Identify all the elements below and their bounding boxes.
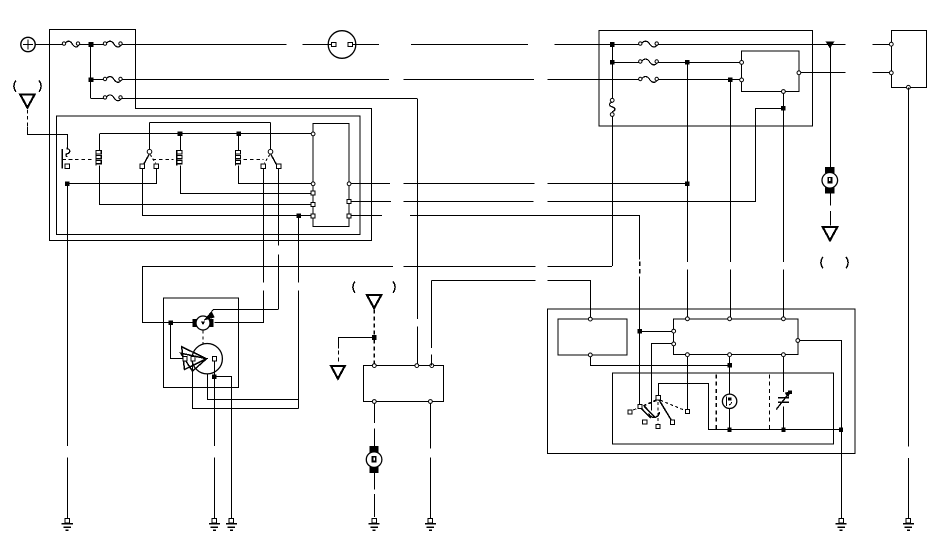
wire unit to lamp xyxy=(729,357,731,395)
wire to ground arrow T3 xyxy=(339,338,375,349)
wire lamp to rail xyxy=(729,409,731,430)
node junction row2 xyxy=(89,78,94,83)
wire 53e dashed section xyxy=(639,261,641,276)
wire bus A in fusebox xyxy=(612,44,639,46)
wire K4 to switch xyxy=(783,108,785,318)
node junction switch in xyxy=(638,329,643,334)
wire S1/S2 ground link xyxy=(67,183,156,185)
node junction switch feed xyxy=(728,78,733,83)
wire washer relay to pump xyxy=(374,404,376,447)
switch S2 blade alt dashed xyxy=(150,155,155,164)
wire unit to contact 6 xyxy=(687,357,689,410)
wire bus B xyxy=(612,62,639,64)
connector block X2 xyxy=(313,124,349,227)
ground G4 xyxy=(372,519,376,523)
node coil3 junction xyxy=(236,132,241,137)
rotary switch contact terminals xyxy=(628,410,632,414)
node park junction xyxy=(212,374,217,379)
wire wiper feed drop xyxy=(298,216,300,409)
wire bus C to relay box xyxy=(658,79,740,81)
wire switch feed drop xyxy=(730,80,732,319)
contact S1 fixed bar xyxy=(61,149,63,168)
node junction motor M3 feed xyxy=(827,42,834,47)
wire motor right brush xyxy=(214,322,263,324)
contact S1 terminal xyxy=(65,164,69,168)
fuse F1 xyxy=(65,41,80,47)
ground G2 xyxy=(212,519,216,523)
coil K2 bottom lead to connector xyxy=(181,166,312,194)
ground G3 xyxy=(229,519,233,523)
wire S1 ground drop xyxy=(67,184,69,519)
wire bus A to rear connector xyxy=(812,44,889,46)
rotary switch bridge bars xyxy=(640,407,651,418)
wire X3 to ground xyxy=(908,87,910,519)
rotary switch blade xyxy=(659,400,671,420)
coil K2 top lead xyxy=(180,134,182,150)
node junction lamp feed xyxy=(727,363,732,368)
battery B+ terminal xyxy=(21,37,35,51)
fuse F3 xyxy=(106,77,122,83)
rotary switch feed loop xyxy=(659,384,709,430)
coil K1 bottom lead to connector xyxy=(100,166,312,205)
wire intermittent feed drop xyxy=(687,62,689,183)
wire M3 feed drop xyxy=(830,44,832,167)
wire M3 to ground arrow xyxy=(830,193,832,225)
node junction intermittent feed xyxy=(685,60,690,65)
dashed lead to washer relay xyxy=(373,340,375,364)
wire park contact right drop xyxy=(214,361,216,377)
node lamp rail junction xyxy=(728,428,732,432)
wire ground-probe to contact S1 xyxy=(28,127,68,148)
ground G1 xyxy=(65,519,69,523)
node bus B junction xyxy=(610,60,615,65)
wire 53e output xyxy=(351,215,640,217)
node right rail junction xyxy=(839,428,843,432)
switch unit box xyxy=(674,319,798,355)
wire wedge return xyxy=(193,361,299,409)
wire breaker return 31 xyxy=(142,266,612,268)
wire stub to F4 xyxy=(91,98,104,100)
wire S2 commons bus xyxy=(150,122,271,124)
ground G6 xyxy=(839,519,843,523)
wire S2 right throw down xyxy=(156,169,158,184)
ground arrow T3 xyxy=(331,366,345,379)
terminal marker T2 parens xyxy=(353,282,355,293)
ground G5 xyxy=(428,519,432,523)
intermittent relay box K4 xyxy=(742,51,799,91)
connector X2 left terminals xyxy=(311,132,315,136)
wire S3 right throw to motor high xyxy=(278,169,280,310)
wiper motor box xyxy=(163,298,238,387)
wire 53e to switch xyxy=(639,277,641,332)
wire bus A middle section xyxy=(352,44,612,46)
wire bus A (30) left section xyxy=(122,44,332,46)
connector X3 terminals xyxy=(889,42,893,46)
relay plate inner box xyxy=(56,116,360,235)
wash/wipe sub box xyxy=(558,319,627,355)
wire bus A to output xyxy=(658,44,812,46)
wire switch unit to arc contact xyxy=(652,344,672,411)
wire 53a output xyxy=(351,183,687,185)
circuit breaker CB1 xyxy=(610,98,614,102)
wire to park switch wedge xyxy=(171,323,183,359)
fuse F5 xyxy=(641,59,658,65)
wire battery to fuse box xyxy=(35,44,62,46)
wire park to ground left xyxy=(214,377,216,519)
washer relay box xyxy=(364,366,444,402)
wire vertical to pump relay xyxy=(417,98,419,363)
switch S2 common xyxy=(147,149,152,154)
relay K1 mech link dashed xyxy=(62,158,93,160)
ground G7 xyxy=(906,519,910,523)
wire park common return xyxy=(208,374,299,400)
motor park mech link dashed xyxy=(202,331,204,344)
relay K2 coil xyxy=(176,150,178,166)
fuse F2 xyxy=(106,41,122,47)
terminal marker T4 parens xyxy=(821,257,823,268)
rotary switch arc contact xyxy=(649,412,660,417)
terminal marker T1 parens xyxy=(14,81,16,92)
switch S3 blade alt dashed xyxy=(264,155,269,164)
right fuse box xyxy=(599,31,813,126)
wire motor brush feed xyxy=(143,267,193,323)
interval lamp L1 xyxy=(722,394,736,408)
park switch wiper sector xyxy=(182,347,207,370)
connector X1 inline circle xyxy=(328,31,356,59)
wire unit to resistor xyxy=(783,357,785,392)
washer relay terminals bottom xyxy=(372,400,376,404)
switch S2 throw terminals xyxy=(140,164,144,168)
wire bus B to relay box xyxy=(658,62,740,64)
ground arrow T2 xyxy=(367,295,382,308)
switch S3 blade xyxy=(271,154,277,165)
washer pump motor M2 xyxy=(370,446,379,452)
rotary switch S4 pivot xyxy=(656,396,661,401)
relay K2 mech link dashed xyxy=(153,158,174,160)
wire fused vertical right xyxy=(612,45,614,99)
wire 53b loop xyxy=(756,109,784,202)
wire park to ground right xyxy=(215,377,232,519)
switch S3 common lead xyxy=(270,123,272,150)
wire fused feed vertical xyxy=(90,45,92,99)
park switch contacts xyxy=(183,357,187,361)
coil K1 top lead xyxy=(99,134,101,150)
contact S1 hook xyxy=(66,148,70,157)
switch unit terminals xyxy=(686,317,690,321)
node junction 53a end xyxy=(685,182,690,187)
wire sub box output xyxy=(591,357,730,366)
wire to wash/wipe unit xyxy=(640,331,672,333)
switch S3 throw terminals xyxy=(261,164,265,168)
wire K4 bottom lead xyxy=(783,93,785,108)
fuse/relay box enclosure xyxy=(50,30,372,241)
wire pump to ground xyxy=(374,473,376,517)
connector X2 right terminals xyxy=(347,182,351,186)
node bus A junction F7 feed xyxy=(610,42,615,47)
wire stub to F3 xyxy=(91,79,104,81)
node ground junction xyxy=(65,182,70,187)
rear wiper motor M3 xyxy=(825,167,834,173)
relay K3 coil xyxy=(234,150,236,166)
rotary switch dashed positions xyxy=(632,400,656,411)
wire right rail to ground xyxy=(841,430,843,519)
wire bus C from F3 xyxy=(122,79,639,81)
node T2 junction xyxy=(372,335,377,340)
wire 53e to contact xyxy=(639,331,641,404)
wire switch common rail xyxy=(708,429,841,431)
relay K4 terminals xyxy=(740,61,744,65)
wire breaker to return bus xyxy=(612,116,614,266)
coil K3 bottom lead to connector xyxy=(239,166,312,184)
node wiper feed junction xyxy=(297,214,302,219)
node motor brush junction xyxy=(169,321,174,326)
wiper motor M1 xyxy=(192,319,197,327)
ground arrow T1 xyxy=(20,94,35,107)
wire K4 output right xyxy=(801,72,889,74)
rear connector box X3 xyxy=(891,30,926,87)
switch S2 blade xyxy=(143,154,149,165)
wire 53b output xyxy=(351,201,756,203)
node junction fuse feed xyxy=(89,42,94,47)
wiper switch assembly box xyxy=(548,309,855,454)
motor speed arrow xyxy=(205,312,214,320)
wire F1 to F2 xyxy=(80,44,104,46)
antenna dashed lead xyxy=(27,110,29,126)
ground arrow T4 xyxy=(823,227,838,240)
wire switch unit to right rail xyxy=(800,341,842,430)
wire 53e corner down xyxy=(639,216,641,260)
wire motor speed tap xyxy=(214,309,279,311)
wire interval feedback xyxy=(431,280,433,365)
switch S3 common xyxy=(268,149,273,154)
fuse F6 xyxy=(641,77,658,83)
dashed lead T3 xyxy=(338,351,340,365)
node K4 junction xyxy=(781,106,786,111)
wire S3 left throw to motor xyxy=(263,169,265,323)
node coil2 junction xyxy=(178,132,183,137)
mechanical guide dashed right xyxy=(768,374,770,429)
wire washer relay right to ground xyxy=(430,404,432,519)
washer relay terminals top xyxy=(372,364,376,368)
relay K1 coil xyxy=(95,150,97,166)
wire coil bus 31b xyxy=(99,133,311,135)
dashed lead T2 down xyxy=(373,310,375,335)
relay K3 mech link dashed xyxy=(244,158,264,160)
fuse F7 xyxy=(641,41,658,47)
coil K3 top lead xyxy=(238,134,240,150)
park switch rotor xyxy=(192,344,222,374)
node resistor rail junction xyxy=(781,428,785,432)
wire resistor to rail xyxy=(783,407,785,430)
sub box terminals xyxy=(588,317,592,321)
wire from F4 to corner xyxy=(122,98,417,100)
mechanical guide dashed left xyxy=(715,374,717,429)
wire S2 left throw to connector xyxy=(143,169,312,216)
switch S2 common lead xyxy=(149,123,151,150)
rotary switch sub box xyxy=(612,373,833,444)
interval resistor R1 xyxy=(778,397,789,399)
fuse F4 xyxy=(106,95,122,101)
